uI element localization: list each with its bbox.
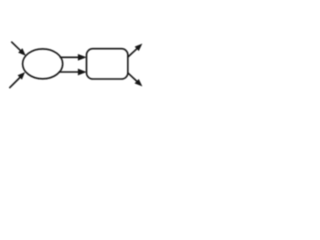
process bubble (ellipse node) xyxy=(23,49,63,79)
wire: upper output arrow (rectangle to upper-right) xyxy=(128,44,142,57)
wire: upper arrow ellipse to rectangle xyxy=(60,54,86,60)
wire: upper input arrow (from upper-left into ellipse) xyxy=(12,42,26,55)
wire: lower output arrow (rectangle to lower-right) xyxy=(128,73,142,86)
wire: lower arrow ellipse to rectangle xyxy=(59,69,86,75)
wire: lower input arrow (from lower-left into ellipse) xyxy=(10,73,25,88)
rounded-rectangle node xyxy=(87,49,128,79)
